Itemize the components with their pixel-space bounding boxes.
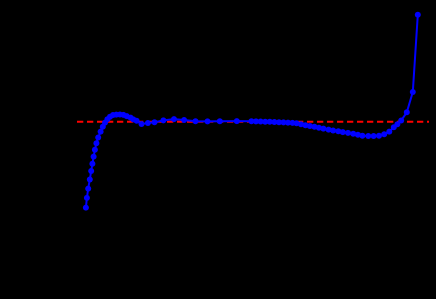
- wire: blue curve line: [86, 15, 418, 208]
- red dashed horizontal reference line: [77, 121, 429, 123]
- node markers: blue data point dots: [83, 12, 421, 211]
